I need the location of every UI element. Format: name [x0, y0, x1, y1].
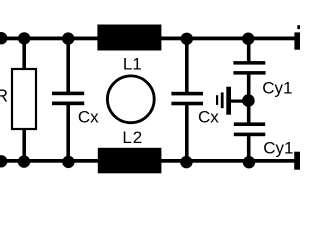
capacitor Cx1 top plate	[52, 92, 84, 96]
inductor L1 winding bar	[97, 25, 161, 51]
wire Cy midpoint	[247, 74, 251, 122]
label fragment top-right corner	[297, 25, 300, 29]
node top-left junction	[0, 32, 7, 44]
capacitor Cy1 upper bottom plate	[233, 71, 265, 75]
wire Cy1-lower bottom lead	[247, 136, 251, 163]
wire bottom rail (neutral)	[0, 159, 300, 163]
wire Cy1-upper top lead	[247, 38, 251, 62]
svg-text:Cy1: Cy1	[262, 79, 292, 98]
svg-text:L2: L2	[122, 128, 143, 147]
capacitor Cy1 lower bottom plate	[234, 133, 265, 137]
capacitor Cx1 bottom plate	[52, 102, 84, 106]
svg-text:L1: L1	[123, 54, 142, 73]
node resistor bottom junction	[18, 155, 30, 167]
node Cy top junction	[242, 33, 254, 45]
svg-text:Cx: Cx	[78, 108, 99, 127]
capacitor Cy1 lower top plate	[234, 122, 265, 126]
node Cx1 bottom junction	[62, 156, 74, 168]
choke core circle	[107, 76, 154, 123]
svg-text:Cy1: Cy1	[263, 139, 293, 158]
wire Cx2 top lead	[185, 38, 189, 92]
wire top rail (line)	[0, 37, 300, 41]
wire ground stub	[231, 100, 244, 103]
wire Cx1 top lead	[66, 38, 70, 92]
node Cx1 top junction	[62, 32, 74, 44]
svg-text:Cx: Cx	[198, 108, 219, 127]
wire Cx1 bottom lead	[66, 105, 70, 163]
svg-text:R: R	[0, 86, 8, 106]
node Cy bottom junction	[243, 156, 255, 168]
ground (chassis earth) bar 2	[221, 92, 224, 108]
terminal top-right (line output)	[294, 32, 300, 49]
node Cy midpoint junction	[242, 94, 255, 107]
wire resistor bottom lead	[22, 129, 26, 162]
capacitor Cx2 top plate	[171, 92, 203, 96]
capacitor Cx2 bottom plate	[171, 102, 203, 106]
inductor L2 winding bar	[98, 148, 162, 174]
node Cx2 top junction	[181, 33, 193, 45]
ground (chassis earth) bar 3	[216, 95, 218, 105]
capacitor Cy1 upper top plate	[233, 61, 265, 65]
node Cx2 bottom junction	[180, 156, 192, 168]
resistor R	[12, 69, 36, 129]
wire resistor top lead	[22, 38, 26, 69]
ground (chassis earth) bar 1	[226, 87, 231, 115]
node bottom-left junction	[0, 155, 7, 167]
wire Cx2 bottom lead	[185, 105, 189, 163]
node resistor top junction	[18, 32, 30, 44]
terminal bottom-right (neutral output)	[294, 152, 300, 170]
